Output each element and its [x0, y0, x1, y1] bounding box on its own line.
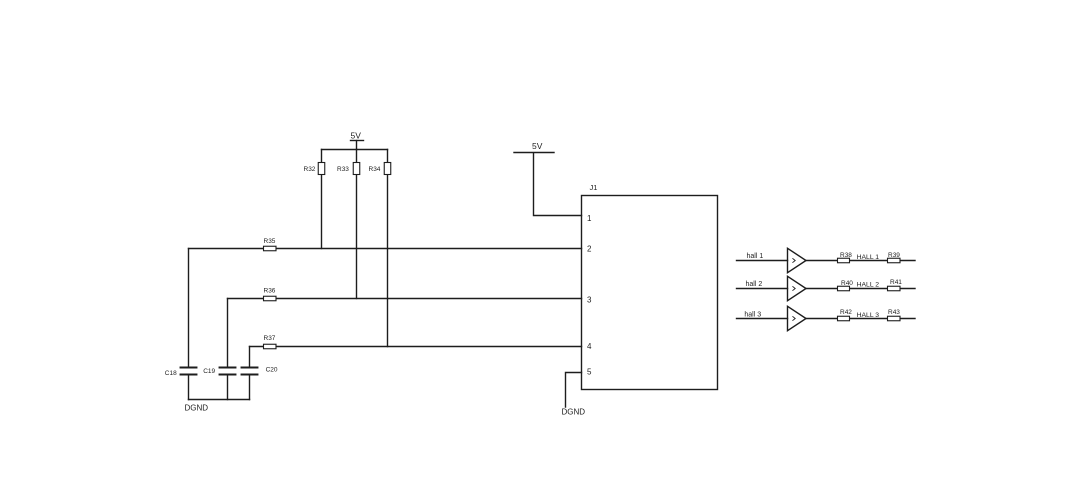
svg-text:R43: R43: [888, 309, 900, 316]
svg-text:R41: R41: [890, 279, 902, 286]
svg-text:R39: R39: [888, 252, 900, 259]
svg-text:DGND: DGND: [185, 404, 209, 413]
svg-text:J1: J1: [590, 183, 598, 192]
svg-text:hall 2: hall 2: [746, 281, 763, 288]
svg-text:1: 1: [587, 214, 592, 223]
svg-text:hall 3: hall 3: [744, 312, 761, 319]
svg-text:2: 2: [587, 244, 592, 253]
svg-text:C20: C20: [266, 367, 278, 374]
svg-text:hall 1: hall 1: [747, 253, 764, 260]
svg-text:R34: R34: [369, 166, 381, 173]
svg-text:4: 4: [587, 342, 592, 351]
svg-text:HALL 1: HALL 1: [857, 254, 880, 261]
svg-text:R40: R40: [841, 280, 853, 287]
svg-text:R36: R36: [264, 288, 276, 295]
svg-text:R35: R35: [264, 238, 276, 245]
svg-text:HALL 2: HALL 2: [857, 282, 880, 289]
svg-text:R42: R42: [840, 309, 852, 316]
svg-text:R33: R33: [337, 166, 349, 173]
svg-text:HALL 3: HALL 3: [857, 312, 880, 319]
svg-text:5: 5: [587, 368, 592, 377]
svg-text:C18: C18: [165, 370, 177, 377]
svg-text:DGND: DGND: [562, 408, 586, 417]
svg-text:5V: 5V: [351, 131, 362, 141]
svg-text:5V: 5V: [532, 141, 543, 151]
svg-text:R37: R37: [264, 335, 276, 342]
svg-text:3: 3: [587, 296, 592, 305]
svg-text:R32: R32: [304, 166, 316, 173]
svg-text:C19: C19: [203, 368, 215, 375]
svg-text:R38: R38: [840, 252, 852, 259]
